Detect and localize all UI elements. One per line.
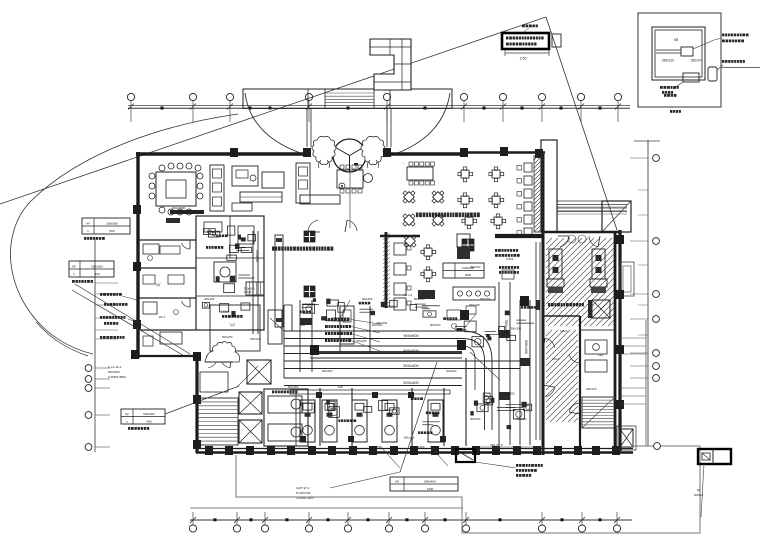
svg-text:436-4x13: 436-4x13 [490, 443, 503, 447]
canopy arc right [388, 93, 450, 157]
svg-text:7㎡: 7㎡ [156, 282, 162, 287]
duct tags [325, 318, 327, 321]
svg-text:800x300: 800x300 [322, 369, 333, 373]
column grid line (left) with axis bubbles [94, 238, 96, 452]
svg-text:900x500: 900x500 [403, 333, 419, 338]
svg-text:120x9: 120x9 [221, 309, 229, 313]
svg-text:10 x 9: 10 x 9 [404, 293, 413, 297]
svg-text:500x400: 500x400 [403, 363, 419, 368]
lobby doors [308, 220, 318, 232]
west strip fixtures [160, 246, 180, 254]
planter shrub right [361, 136, 385, 164]
service rooms (west) [196, 216, 264, 330]
note text a [495, 249, 497, 252]
south exterior wall [196, 448, 633, 450]
svg-text:250x160: 250x160 [404, 436, 415, 440]
leader line to right wing [546, 17, 617, 230]
elevator (east mid) [592, 300, 610, 318]
curved leader loop (left) [10, 114, 238, 354]
svg-text:P=200 KW: P=200 KW [296, 491, 311, 495]
west exterior wall [136, 152, 139, 358]
svg-text:500x250: 500x250 [362, 297, 373, 301]
svg-text:200x13: 200x13 [694, 493, 704, 497]
schedule table 1 (left) [82, 218, 130, 234]
floor box marker 3 [462, 239, 474, 251]
wall column blocks [230, 148, 238, 157]
note text b [499, 266, 501, 269]
elevator 3 [239, 420, 262, 443]
svg-text:Gp: Gp [125, 412, 129, 416]
svg-text:200x300: 200x300 [106, 222, 118, 226]
cafe tables (north lounge) [296, 163, 310, 203]
svg-text:1200: 1200 [427, 487, 434, 491]
svg-text:800x300: 800x300 [414, 297, 425, 301]
south dining seating [394, 243, 406, 255]
mechanical equipment lower [338, 419, 340, 422]
corridor walls [310, 351, 462, 353]
dining service equipment [485, 330, 496, 332]
svg-text:Br: Br [697, 488, 700, 492]
svg-text:300x200: 300x200 [510, 326, 521, 330]
fan coil units (east wing) [549, 249, 562, 279]
svg-text:400x200: 400x200 [446, 369, 457, 373]
Gp schedule table [121, 409, 165, 424]
svg-text:800x400: 800x400 [524, 340, 528, 354]
svg-text:120x9: 120x9 [506, 257, 514, 261]
cooking range counter [453, 287, 495, 300]
svg-text:200x200: 200x200 [504, 391, 515, 395]
west wing wall [195, 355, 198, 453]
roof terrace structure (north-east) [541, 140, 557, 232]
leader lines into building [75, 284, 190, 354]
air handling units [300, 400, 315, 442]
detail view box (top right) [638, 13, 721, 107]
floor box marker 1 [304, 231, 315, 242]
leader line to left [0, 17, 546, 204]
svg-text:800x300: 800x300 [288, 385, 299, 389]
svg-text:500x250: 500x250 [470, 417, 481, 421]
toilet wing north wall [543, 231, 620, 234]
canopy arc left [245, 93, 311, 157]
cloud door (west wing) [205, 342, 240, 363]
vestibule circle marker [339, 183, 345, 189]
equipment bench [290, 390, 450, 394]
svg-text:240x1800: 240x1800 [172, 206, 186, 210]
svg-text:500x250: 500x250 [480, 297, 491, 301]
mechanical equipment upper [359, 308, 373, 310]
AHU room label [548, 303, 550, 306]
exterior steps (east) [620, 337, 646, 339]
svg-text:FaD: FaD [338, 385, 343, 389]
svg-text:400: 400 [94, 272, 99, 276]
dimension slash ticks [128, 104, 134, 110]
lobby note text [272, 247, 274, 251]
svg-text:FaD: FaD [300, 323, 305, 327]
east wing walls [614, 232, 617, 448]
dining note text [416, 213, 418, 218]
svg-text:250x160: 250x160 [516, 417, 527, 421]
elevator 4 [620, 429, 633, 447]
svg-text:2000: 2000 [465, 273, 472, 277]
equipment schedule table (dining) [443, 263, 484, 278]
svg-text:FaD: FaD [598, 353, 603, 357]
dining service fixtures [447, 310, 461, 320]
rest room (west) [210, 305, 260, 351]
kitchen equipment cluster [216, 235, 218, 238]
exhaust unit (south-east) [698, 449, 731, 464]
diamond dining tables [399, 187, 419, 207]
west strip rooms [138, 239, 196, 241]
svg-text:800x300: 800x300 [414, 445, 425, 449]
banquette seating (east) [524, 163, 532, 172]
svg-text:400: 400 [146, 420, 151, 424]
dining south wall [380, 235, 420, 238]
leader notes (left column) [100, 293, 102, 296]
planter shrub left [312, 136, 336, 164]
kitchen cabinets [210, 165, 224, 211]
svg-text:500: 500 [109, 229, 114, 233]
staircase (south-east) [582, 397, 615, 428]
svg-text:800x300: 800x300 [430, 323, 441, 327]
svg-text:1:50: 1:50 [520, 57, 527, 61]
dining south wall (east) [495, 234, 543, 238]
dining west wall [385, 232, 388, 308]
vestibule room (west wing) [208, 356, 218, 368]
lobby column strip [275, 235, 283, 327]
svg-text:XB: XB [674, 38, 679, 42]
svg-text:7㎡: 7㎡ [229, 322, 235, 327]
lounge furniture [232, 166, 258, 186]
svg-text:KE: KE [395, 480, 399, 484]
KE schedule table (bottom) [390, 477, 458, 491]
svg-text:CAP. 97.2: CAP. 97.2 [296, 486, 310, 490]
svg-text:250x160: 250x160 [470, 265, 481, 269]
hatched floor area (east wing) [546, 238, 614, 326]
svg-text:250x160: 250x160 [255, 250, 259, 262]
misc leader lines [380, 446, 400, 468]
floor box marker 2 [304, 286, 315, 297]
duct elbows [462, 331, 492, 430]
supply/exhaust ducts [284, 330, 462, 332]
roof lines extra [557, 206, 627, 208]
svg-text:A4: A4 [86, 222, 90, 226]
entrance canopy band [243, 89, 452, 108]
staircase (south-west) [198, 398, 238, 445]
north exterior wall [136, 152, 307, 155]
vestibule side walls [306, 108, 308, 147]
service wall hatch [534, 156, 543, 232]
svg-text:200x200: 200x200 [385, 304, 396, 308]
svg-text:500x250: 500x250 [108, 370, 120, 374]
vertical duct risers [299, 300, 301, 372]
site boundary (bottom) [236, 446, 700, 533]
svg-text:250x160: 250x160 [250, 337, 261, 341]
svg-text:120x9: 120x9 [244, 290, 252, 294]
interior wall blocks [457, 340, 466, 350]
svg-text:120x9: 120x9 [552, 357, 560, 361]
svg-text:500x250: 500x250 [370, 445, 381, 449]
svg-text:250x70: 250x70 [691, 59, 702, 63]
exhaust fan marker (bottom) [456, 449, 475, 462]
revolving door [333, 139, 366, 172]
west wing step wall [137, 355, 197, 357]
elevator 1 [247, 360, 271, 384]
column grid line (right) with axis bubbles [647, 140, 649, 446]
stepped stair-core structure (top) [370, 39, 411, 90]
svg-text:250x160: 250x160 [586, 387, 597, 391]
svg-text:800x300: 800x300 [372, 323, 383, 327]
column grid line (bottom) with axis bubbles [190, 507, 463, 509]
svg-text:300x200: 300x200 [469, 303, 480, 307]
svg-text:800x400: 800x400 [424, 480, 436, 484]
riser duct (kitchen) [252, 231, 254, 334]
entry axis line [349, 172, 351, 228]
svg-text:2F-1: 2F-1 [159, 315, 166, 319]
partition walls (plant rooms) [319, 388, 321, 446]
svg-text:FaD: FaD [486, 401, 491, 405]
south-east fixtures [507, 425, 512, 429]
kitchen round table group [156, 172, 196, 206]
buffet cabinet [457, 234, 470, 247]
svg-text:KF: KF [72, 265, 76, 269]
riser pair (east) [535, 242, 537, 440]
svg-text:0.25kW 380V: 0.25kW 380V [108, 375, 126, 379]
svg-text:400x200: 400x200 [204, 297, 215, 301]
svg-text:500x250: 500x250 [222, 335, 233, 339]
banquet table [407, 167, 433, 180]
east exterior wall [618, 230, 621, 451]
svg-text:400x200: 400x200 [356, 339, 367, 343]
svg-text:C,LF-1F-1: C,LF-1F-1 [108, 365, 122, 369]
svg-text:500x300: 500x300 [91, 265, 103, 269]
square dining tables [461, 170, 469, 178]
east balcony [620, 262, 634, 296]
schedule table 2 (left) [69, 261, 114, 277]
column grid line (top) with axis bubbles [128, 105, 630, 107]
svg-text:500x400: 500x400 [403, 380, 419, 385]
east wing fixtures [585, 340, 607, 354]
svg-text:500x400: 500x400 [143, 412, 155, 416]
east wing entry doors [560, 236, 569, 247]
detail callout label box [502, 33, 549, 49]
AHU room [264, 389, 308, 446]
svg-text:250x120: 250x120 [662, 59, 674, 63]
svg-text:120x9: 120x9 [560, 329, 568, 333]
dining east wall [542, 154, 545, 455]
elevator 2 [239, 392, 262, 414]
